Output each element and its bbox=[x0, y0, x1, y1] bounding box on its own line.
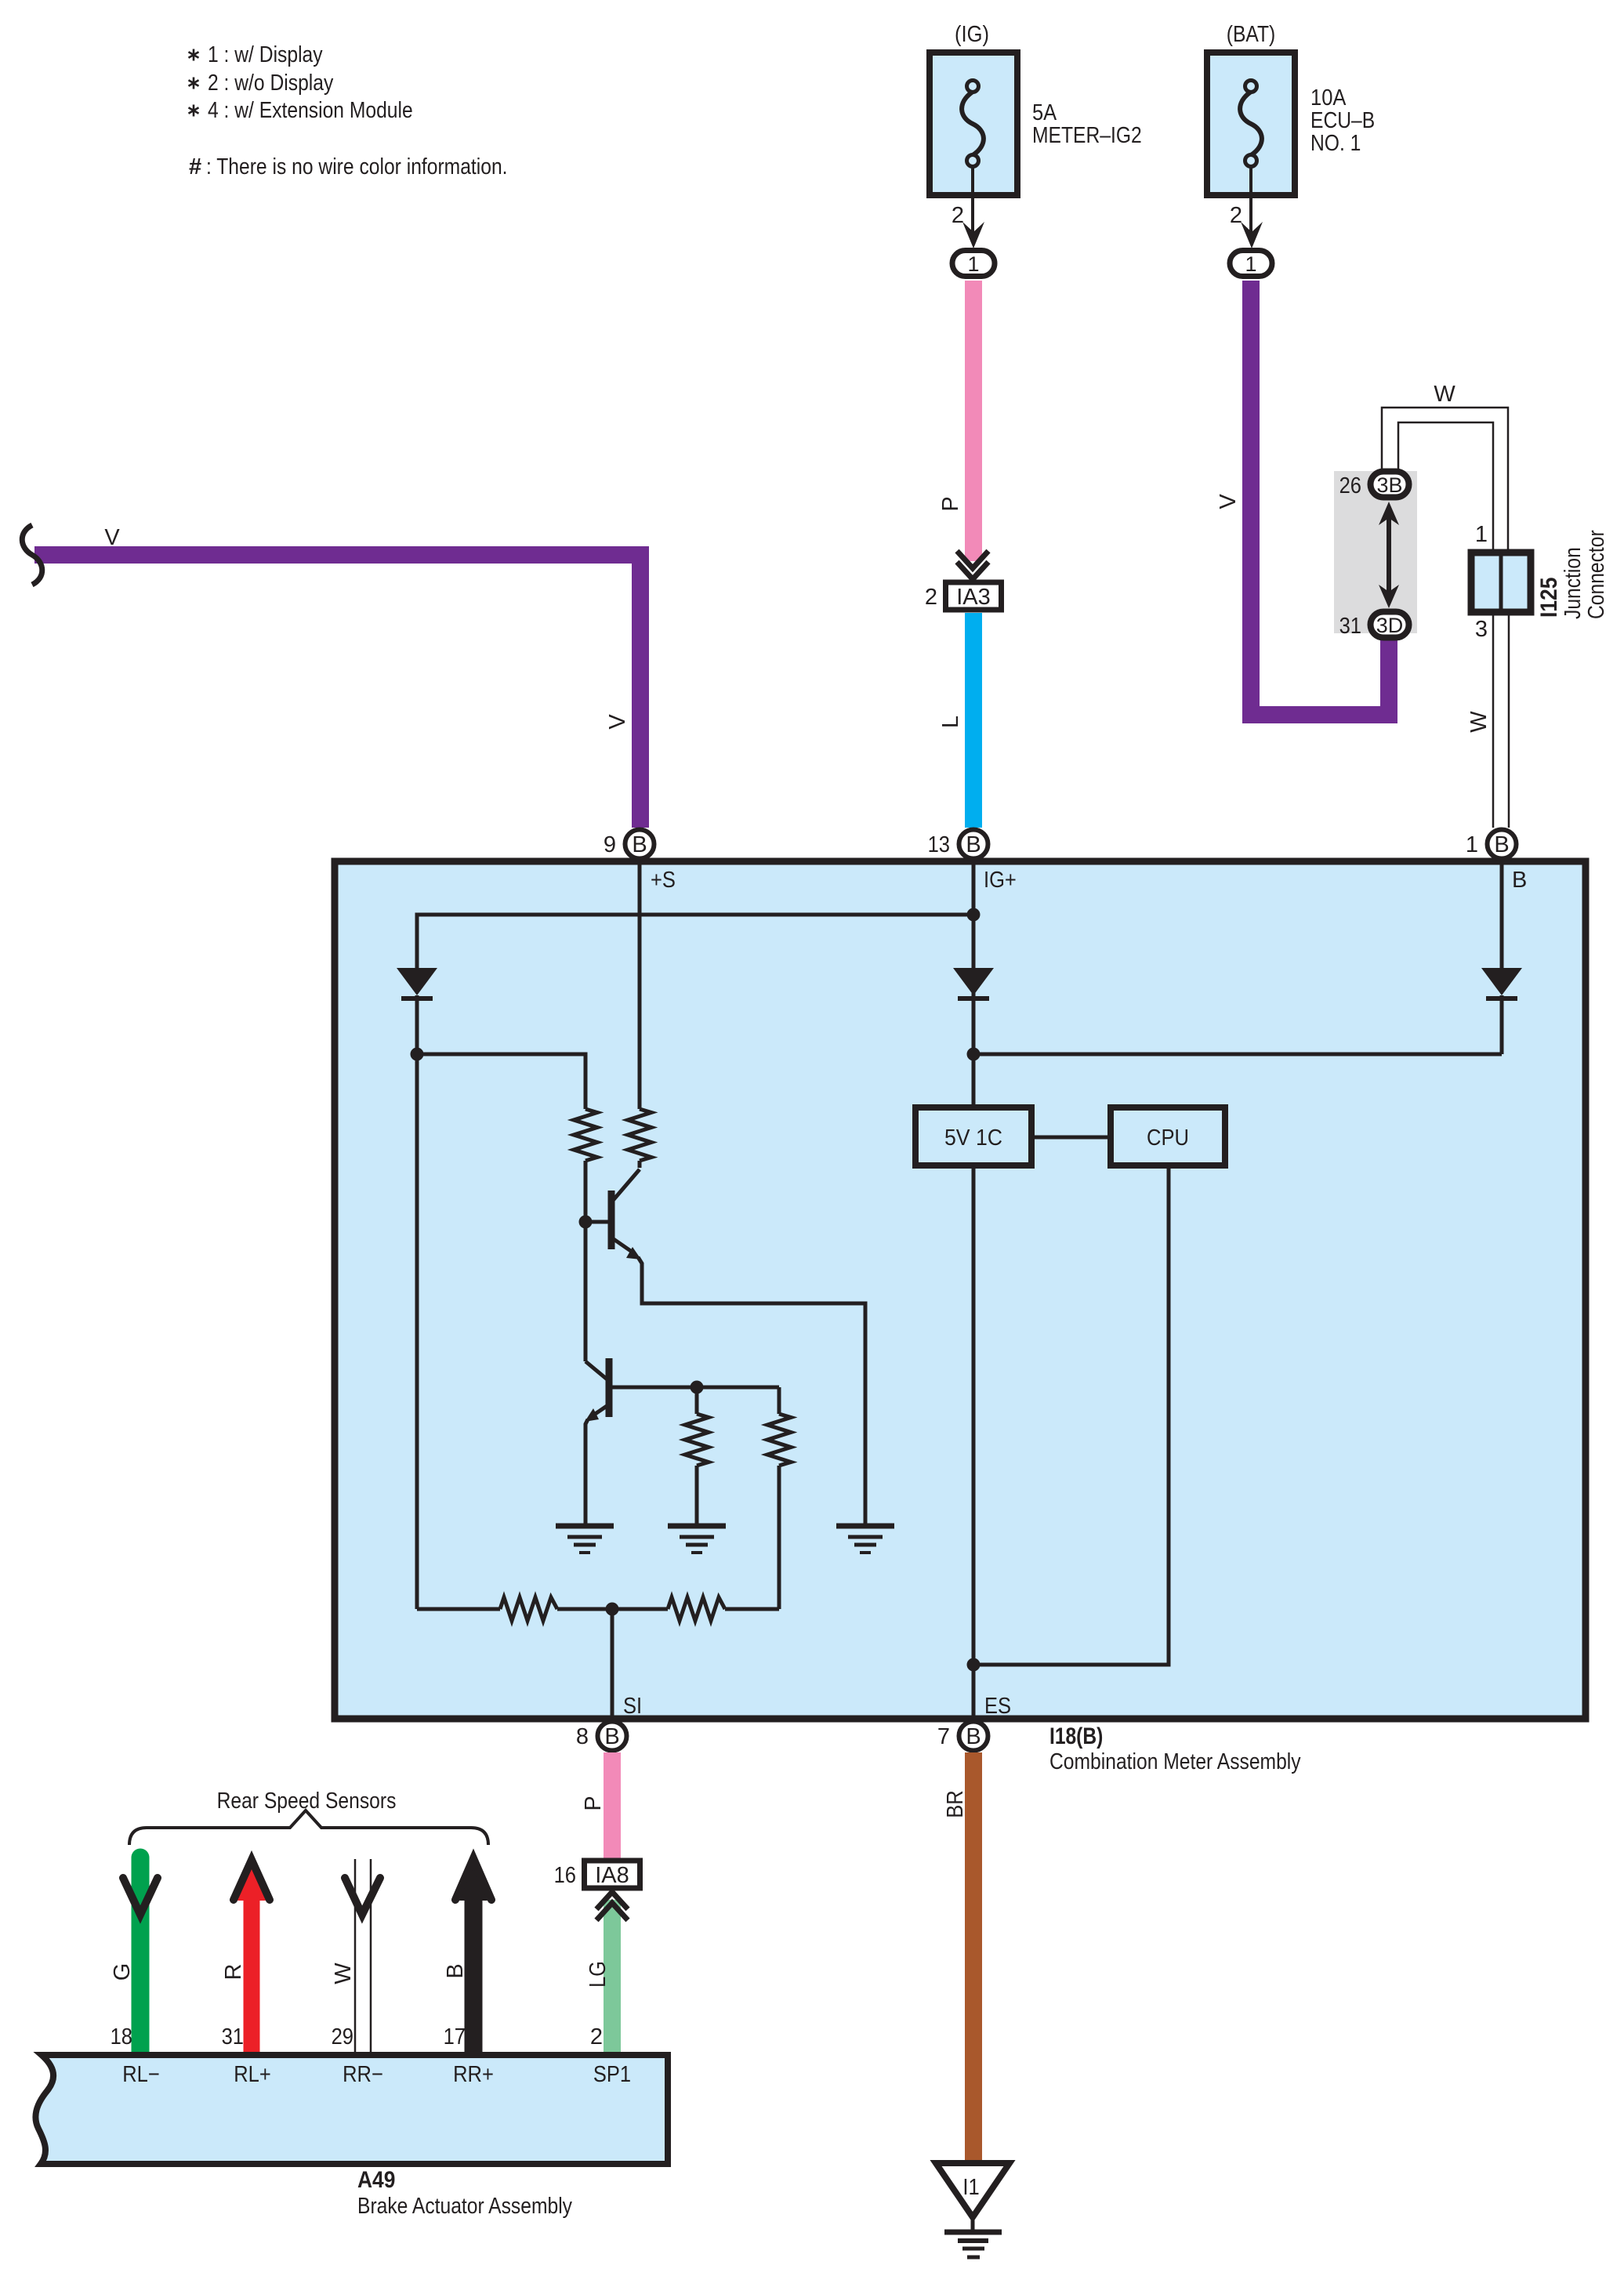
svg-text:(IG): (IG) bbox=[955, 22, 989, 47]
svg-text:B: B bbox=[966, 1724, 981, 1749]
svg-text:26: 26 bbox=[1339, 473, 1361, 498]
svg-text:I125: I125 bbox=[1536, 578, 1562, 618]
legend note line 3 bbox=[189, 105, 199, 117]
ground G3 bbox=[836, 1526, 894, 1553]
fuse 10A ECU-B NO.1 (BAT) bbox=[1207, 22, 1375, 195]
svg-text:Junction: Junction bbox=[1561, 547, 1586, 619]
wire SI node down to pin 8 bbox=[611, 1609, 614, 1720]
wire bottom row left lead bbox=[417, 1607, 500, 1611]
svg-text:17: 17 bbox=[444, 2024, 466, 2049]
wire V (purple) left edge to pin 9 bbox=[34, 525, 649, 828]
wire R3 to ground G2 bbox=[695, 1466, 699, 1524]
svg-text:RL−: RL− bbox=[122, 2062, 160, 2087]
svg-text:(BAT): (BAT) bbox=[1227, 22, 1276, 47]
svg-text:2 : w/o Display: 2 : w/o Display bbox=[208, 71, 334, 96]
wire ES internal bbox=[972, 1165, 976, 1720]
wire R4 down to bottom line bbox=[778, 1466, 781, 1609]
svg-text:+S: +S bbox=[651, 868, 676, 893]
svg-text:B: B bbox=[443, 1963, 468, 1978]
legend note line 2 bbox=[189, 78, 199, 89]
svg-text:1: 1 bbox=[967, 252, 979, 276]
wire LG (light green) IA8 to SP1 bbox=[585, 1900, 612, 2052]
resistor R4 bbox=[767, 1414, 791, 1466]
svg-text:: There is no wire color infor: : There is no wire color information. bbox=[206, 154, 508, 179]
svg-text:Combination Meter Assembly: Combination Meter Assembly bbox=[1049, 1749, 1301, 1774]
wire P (pink) fuse IG to IA3 bbox=[938, 281, 973, 561]
svg-text:METER–IG2: METER–IG2 bbox=[1032, 123, 1142, 148]
wire left chain down to bottom resistors bbox=[415, 1054, 419, 1609]
ground G1 bbox=[556, 1526, 614, 1553]
svg-text:1: 1 bbox=[1466, 832, 1478, 857]
wire middle interconnect right bbox=[973, 1053, 1502, 1056]
junction connector I125 bbox=[1471, 522, 1609, 642]
ground I1 bbox=[936, 2163, 1010, 2257]
svg-text:31: 31 bbox=[1339, 614, 1361, 639]
node dot middle interconnect bbox=[967, 1048, 981, 1061]
arrow link between 3B and 3D bbox=[1379, 502, 1399, 608]
double chevron out of IA8 bbox=[596, 1892, 628, 1920]
resistor R6 bbox=[668, 1597, 725, 1621]
node dot SI bbox=[606, 1603, 619, 1616]
wire fuse IG pin 2 to oval bbox=[952, 166, 984, 248]
svg-text:16: 16 bbox=[554, 1863, 576, 1888]
pin 13 circle B bbox=[928, 830, 988, 859]
wire node to R3 bbox=[695, 1387, 699, 1414]
svg-text:P: P bbox=[581, 1796, 606, 1810]
continuation curl at left end of wire V bbox=[22, 525, 42, 585]
wire V (purple) BAT oval to junction 3D bbox=[1216, 281, 1397, 723]
wire L (blue) IA3 to pin 13 bbox=[938, 613, 973, 828]
junction connector block (gray) bbox=[1334, 471, 1417, 633]
svg-text:3D: 3D bbox=[1376, 614, 1404, 637]
svg-text:4 : w/ Extension Module: 4 : w/ Extension Module bbox=[208, 98, 413, 123]
wire G (green) sensor RL- pin 18 bbox=[110, 1849, 158, 2053]
svg-text:IA3: IA3 bbox=[956, 585, 991, 610]
ground G2 bbox=[668, 1526, 726, 1553]
svg-text:3B: 3B bbox=[1377, 473, 1403, 497]
svg-text:I18(B): I18(B) bbox=[1049, 1723, 1103, 1749]
resistor R3 bbox=[685, 1414, 709, 1466]
svg-text:CPU: CPU bbox=[1147, 1125, 1189, 1151]
oval 3D (pin 31) bbox=[1339, 612, 1409, 640]
svg-text:SI: SI bbox=[623, 1694, 642, 1719]
wire 5V to CPU bbox=[1031, 1136, 1111, 1140]
svg-text:W: W bbox=[1466, 711, 1492, 733]
wire fuse BAT pin 2 to oval bbox=[1230, 166, 1263, 248]
svg-text:BR: BR bbox=[943, 1790, 968, 1818]
svg-text:1 : w/ Display: 1 : w/ Display bbox=[208, 42, 323, 67]
resistor R1 bbox=[574, 1109, 597, 1161]
wire R (red) sensor RL+ pin 31 bbox=[221, 1860, 270, 2052]
connector oval 1 (BAT) bbox=[1230, 251, 1272, 277]
svg-text:5A: 5A bbox=[1032, 100, 1057, 125]
combination meter assembly box I18(B) bbox=[335, 861, 1586, 1719]
wire Q2 emitter to ground G1 bbox=[585, 1419, 588, 1524]
svg-text:13: 13 bbox=[928, 832, 950, 857]
svg-text:B: B bbox=[1512, 868, 1527, 893]
svg-text:IA8: IA8 bbox=[595, 1863, 629, 1888]
svg-text:18: 18 bbox=[111, 2024, 132, 2049]
svg-text:Brake Actuator Assembly: Brake Actuator Assembly bbox=[357, 2194, 572, 2219]
transistor Q2 (NPN mirrored) bbox=[585, 1358, 779, 1422]
wire IG+ internal bbox=[972, 861, 976, 1107]
svg-text:1: 1 bbox=[1475, 522, 1488, 547]
oval 3B (pin 26) bbox=[1339, 472, 1409, 499]
legend note line 1 bbox=[189, 49, 199, 61]
svg-text:ES: ES bbox=[984, 1694, 1011, 1719]
svg-text:31: 31 bbox=[222, 2024, 244, 2049]
svg-text:7: 7 bbox=[937, 1724, 950, 1749]
svg-text:RR+: RR+ bbox=[453, 2062, 494, 2087]
double chevron into IA3 bbox=[957, 551, 988, 579]
wire R2 to Q1 collector bbox=[638, 1161, 642, 1168]
svg-text:A49: A49 bbox=[357, 2167, 395, 2193]
regulator box 5V 1C bbox=[915, 1107, 1031, 1165]
wire top interconnect to left diode bbox=[417, 915, 973, 969]
node dot ES bbox=[967, 1658, 981, 1672]
brace over sensor wires bbox=[129, 1810, 488, 1845]
svg-text:29: 29 bbox=[332, 2024, 353, 2049]
resistor R2 bbox=[628, 1109, 651, 1161]
svg-text:W: W bbox=[331, 1963, 356, 1984]
diode D3 (right) bbox=[1481, 968, 1522, 1054]
svg-text:2: 2 bbox=[1230, 203, 1242, 228]
wire BR (brown) pin 7 to ground I1 bbox=[943, 1752, 973, 2163]
svg-text:V: V bbox=[104, 525, 120, 550]
connector oval 1 (IG) bbox=[952, 251, 995, 277]
wire base corner down to R4 bbox=[778, 1387, 781, 1414]
svg-text:2: 2 bbox=[590, 2024, 603, 2049]
svg-text:B: B bbox=[632, 832, 647, 857]
svg-text:LG: LG bbox=[585, 1961, 611, 1988]
node dot Q2 base bbox=[691, 1381, 704, 1394]
connector IA8 (pin 16) bbox=[554, 1861, 640, 1888]
wire P (pink) pin 8 to IA8 bbox=[581, 1752, 612, 1858]
svg-text:P: P bbox=[938, 496, 963, 511]
wire Q1 base node to Q2 collector bbox=[584, 1222, 588, 1361]
diode D1 (left) bbox=[397, 968, 437, 1054]
wire Q1 emitter to ground G3 bbox=[638, 1257, 865, 1524]
wire W (white double) I125 pin 3 to meter pin 1 bbox=[1466, 612, 1509, 828]
brake actuator assembly box A49 bbox=[35, 2055, 668, 2164]
pin 1 circle B bbox=[1466, 830, 1517, 859]
svg-text:B: B bbox=[966, 832, 981, 857]
wire CPU down to ES node bbox=[973, 1165, 1169, 1665]
connector IA3 (pin 2) bbox=[925, 582, 1002, 610]
pin 7 circle B bbox=[937, 1722, 988, 1751]
transistor Q1 (NPN) bbox=[585, 1169, 641, 1259]
svg-text:B: B bbox=[1494, 832, 1509, 857]
svg-text:2: 2 bbox=[925, 585, 937, 610]
svg-text:RR−: RR− bbox=[343, 2062, 383, 2087]
svg-text:V: V bbox=[1216, 494, 1241, 509]
wire B internal bbox=[1500, 861, 1504, 969]
svg-text:5V 1C: 5V 1C bbox=[944, 1125, 1002, 1151]
diode D2 (middle) bbox=[953, 968, 994, 1054]
wire middle interconnect left to R1 bbox=[417, 1054, 585, 1109]
wire R1 to Q1 base node bbox=[584, 1161, 588, 1222]
svg-text:8: 8 bbox=[576, 1724, 589, 1749]
svg-text:9: 9 bbox=[604, 832, 616, 857]
svg-text:RL+: RL+ bbox=[234, 2062, 271, 2087]
wire R6 to R4 bbox=[725, 1607, 779, 1611]
svg-text:G: G bbox=[110, 1963, 135, 1981]
wire W (white) sensor RR- pin 29 bbox=[331, 1859, 380, 2052]
svg-text:B: B bbox=[604, 1724, 619, 1749]
svg-text:IG+: IG+ bbox=[984, 868, 1017, 893]
node dot Q1 base bbox=[579, 1216, 593, 1229]
svg-text:#: # bbox=[189, 154, 201, 179]
wire B (black) sensor RR+ pin 17 bbox=[443, 1858, 491, 2052]
pin 9 circle B bbox=[604, 830, 654, 859]
CPU box bbox=[1111, 1107, 1225, 1165]
svg-text:3: 3 bbox=[1475, 617, 1488, 642]
svg-text:W: W bbox=[1434, 382, 1455, 407]
wire +S internal bbox=[638, 861, 642, 1109]
svg-text:SP1: SP1 bbox=[593, 2062, 631, 2087]
svg-text:Connector: Connector bbox=[1584, 530, 1609, 619]
svg-text:1: 1 bbox=[1245, 252, 1256, 276]
svg-text:R: R bbox=[221, 1964, 246, 1981]
pin 8 circle B bbox=[576, 1722, 627, 1751]
svg-text:10A: 10A bbox=[1310, 85, 1347, 111]
node dot left interconnect bbox=[411, 1048, 424, 1061]
wire R5 to node bbox=[557, 1607, 668, 1611]
resistor R5 bbox=[500, 1597, 557, 1621]
svg-text:ECU–B: ECU–B bbox=[1310, 108, 1375, 133]
svg-text:L: L bbox=[938, 716, 963, 728]
svg-text:NO. 1: NO. 1 bbox=[1310, 131, 1361, 156]
fuse 5A METER-IG2 (IG) bbox=[930, 22, 1142, 195]
node dot IG+ interconnect bbox=[967, 908, 981, 922]
svg-text:2: 2 bbox=[952, 203, 964, 228]
svg-text:V: V bbox=[605, 714, 630, 730]
svg-text:I1: I1 bbox=[962, 2175, 979, 2200]
wire W (white double) 3B to I125 pin 1 bbox=[1382, 382, 1508, 551]
